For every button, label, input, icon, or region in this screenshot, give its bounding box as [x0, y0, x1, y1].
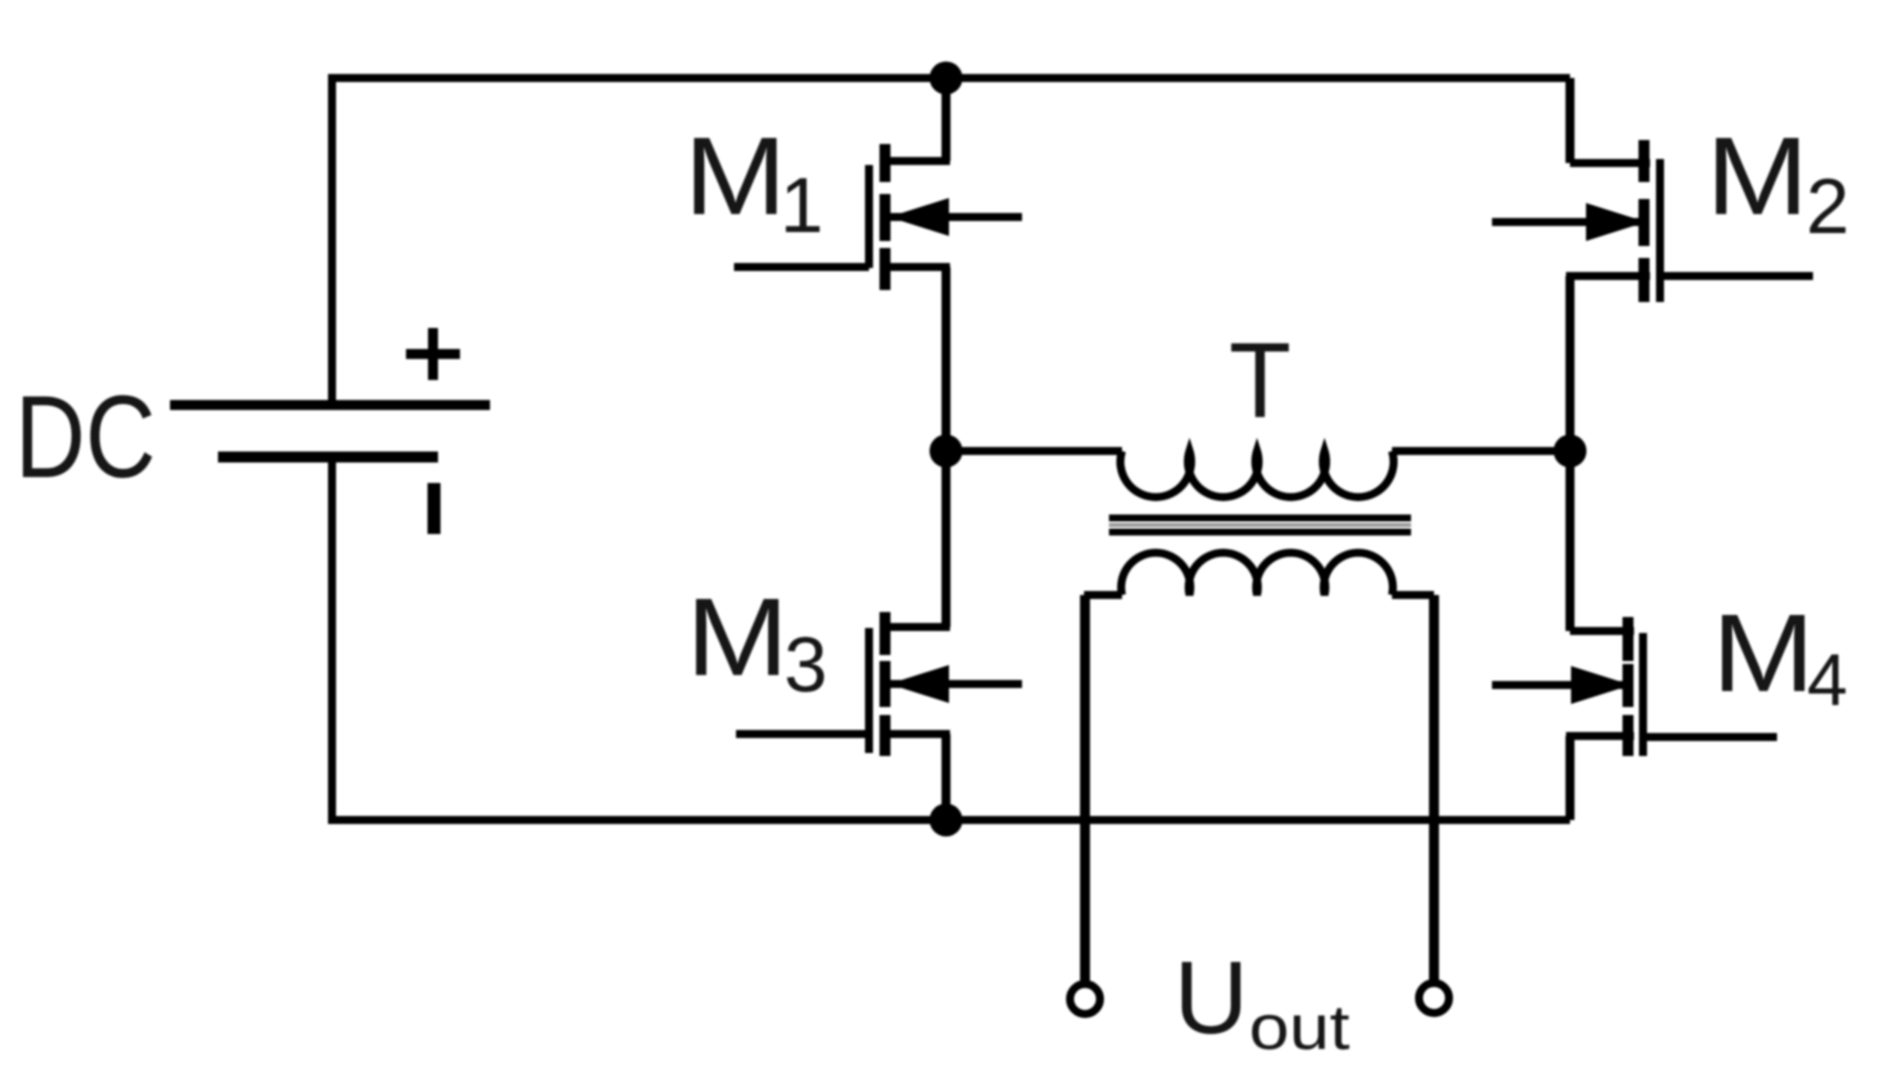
wire M3 source vertical — [942, 734, 951, 820]
transistor M3 gate plate — [865, 628, 873, 753]
transformer T primary winding — [1120, 451, 1393, 497]
wire M2 source lead — [1566, 272, 1650, 280]
wire primary right — [1392, 447, 1570, 455]
wire M2 drain lead — [1570, 159, 1650, 167]
wire M3 source lead — [880, 730, 950, 738]
transistor M4 gate plate — [1639, 633, 1647, 756]
node top rail junction — [930, 62, 963, 95]
wire secondary left vertical — [1080, 595, 1090, 982]
wire M4 drain lead — [1570, 627, 1634, 635]
wire top rail — [329, 74, 1570, 82]
battery DC source positive plate — [170, 400, 490, 410]
node mid-right junction — [1554, 435, 1587, 468]
svg-text:M: M — [684, 114, 787, 237]
transistor M1 gate plate — [865, 165, 873, 268]
wire left vertical upper — [328, 74, 336, 405]
wire M3 drain vertical — [942, 451, 951, 627]
svg-text:2: 2 — [1806, 162, 1849, 250]
minus sign — [428, 483, 441, 534]
wire M4 drain vertical — [1566, 451, 1575, 631]
transistor M3 channel bars — [880, 612, 891, 756]
wire secondary right lead — [1392, 591, 1434, 599]
wire left vertical lower — [328, 457, 336, 824]
transistor M2 gate plate — [1656, 159, 1664, 302]
svg-text:1: 1 — [780, 161, 823, 249]
node bottom rail junction — [930, 804, 963, 837]
transistor M4 body arrow — [1492, 681, 1624, 689]
wire M1 source vertical — [942, 267, 951, 451]
wire bottom rail — [329, 816, 1570, 824]
svg-text:out: out — [1249, 993, 1350, 1063]
transistor M2 body arrow — [1492, 218, 1640, 226]
terminal left output — [1070, 984, 1100, 1014]
wire M1 drain lead — [880, 157, 950, 165]
wire M1 drain vertical — [942, 78, 951, 161]
wire M1 gate lead — [734, 263, 869, 271]
svg-text:3: 3 — [784, 620, 827, 708]
transistor M3 body arrow — [889, 680, 1022, 688]
transistor M1 body arrow — [889, 213, 1022, 221]
terminal right output — [1419, 983, 1449, 1013]
svg-text:DC: DC — [15, 372, 156, 502]
transistor M1 channel bars — [880, 144, 891, 290]
svg-text:M: M — [686, 575, 789, 698]
wire M2 drain vertical — [1566, 78, 1575, 163]
wire M3 gate lead — [736, 730, 869, 738]
wire M2 gate lead — [1660, 272, 1813, 280]
wire M4 source lead — [1566, 732, 1634, 740]
plus sign — [406, 328, 460, 380]
wire M1 source lead — [880, 263, 950, 271]
transistor M4 channel bars — [1623, 617, 1634, 756]
transformer T core — [1109, 518, 1411, 532]
wire secondary left lead — [1084, 591, 1122, 599]
node mid-left junction — [930, 435, 963, 468]
transistor M2 channel bars — [1639, 140, 1650, 302]
wire primary left — [946, 447, 1122, 455]
wire M4 gate lead — [1643, 733, 1777, 741]
svg-text:M: M — [1712, 591, 1815, 714]
svg-text:4: 4 — [1807, 640, 1848, 721]
wire M2 source vertical — [1566, 276, 1575, 451]
svg-text:M: M — [1706, 114, 1809, 237]
svg-text:U: U — [1174, 940, 1248, 1055]
battery DC source negative plate — [218, 452, 438, 463]
svg-text:T: T — [1229, 322, 1291, 441]
wire secondary right vertical — [1429, 595, 1439, 980]
wire M3 drain lead — [880, 623, 950, 631]
transformer T secondary winding — [1121, 553, 1393, 595]
wire M4 source vertical — [1566, 736, 1575, 820]
